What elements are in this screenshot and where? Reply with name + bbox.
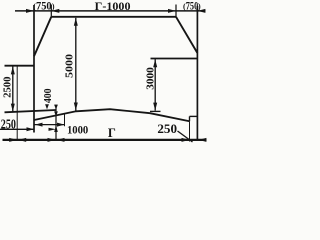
svg-text:): ) (52, 2, 55, 11)
svg-text:Г: Г (108, 126, 116, 140)
arrow up under 1000 line at curb (54, 125, 58, 132)
extension line corner right (175, 5, 177, 17)
right wall (196, 6, 198, 141)
arrow gamma-1000 left (51, 9, 59, 13)
road level tick at 3000 (150, 110, 161, 112)
arrow 1000 right (57, 123, 65, 127)
arrow 250 bottom right-point (27, 127, 35, 131)
extension line corner left (50, 5, 52, 17)
svg-text:): ) (198, 2, 201, 11)
dimension line 400 (55, 105, 57, 141)
left ledge (5, 65, 35, 67)
gauge dimension line bottom (3, 139, 207, 141)
arrow gauge curb right-flank (57, 138, 65, 142)
leader line right 250 (178, 131, 193, 142)
arrow 3000 up (153, 59, 157, 67)
svg-text:250: 250 (157, 121, 177, 136)
arrow left outer 750 (26, 9, 34, 13)
extension line x17 (16, 66, 18, 141)
arrow gauge left inside (18, 138, 26, 142)
svg-text:Г-1000: Г-1000 (95, 0, 131, 13)
road surface (34, 109, 190, 121)
dimension line 250 bottom left (0, 128, 34, 130)
svg-text:250: 250 (1, 117, 16, 132)
svg-text:750: 750 (186, 0, 198, 12)
svg-text:2500: 2500 (1, 76, 13, 98)
right chamfer (176, 17, 197, 53)
dimension line 5000 (75, 18, 77, 111)
arrow 3000 down (153, 103, 157, 111)
arrow gauge left outside (9, 138, 17, 142)
arrow 5000 down (74, 103, 78, 111)
arrow 400 under text (45, 104, 49, 109)
arrow 5000 up (74, 18, 78, 26)
arrow 400 upper down (54, 105, 58, 110)
right ledge (151, 58, 198, 60)
arrow gauge curb left-flank (48, 138, 56, 142)
outline top (51, 16, 176, 18)
svg-text:750: 750 (36, 0, 52, 12)
arrow 400 lower down (54, 111, 58, 116)
dimension line 1000 bottom (34, 124, 64, 126)
arrow 2500 up (11, 66, 15, 74)
top dimension line (15, 10, 206, 12)
arrow 1000 left (35, 123, 43, 127)
arrow on 250 line at curb (49, 128, 57, 131)
left wall (33, 5, 35, 133)
extension line x64.5 (64, 113, 66, 126)
extension step right down (189, 121, 191, 141)
road step right (189, 116, 191, 121)
arrow gauge right outside (198, 138, 206, 142)
svg-text:3000: 3000 (145, 67, 157, 90)
arrow right outer 750 (197, 9, 205, 13)
arrow right 250 left (182, 138, 190, 142)
left sidewalk surface (5, 110, 57, 112)
dimension line 3000 (154, 59, 156, 110)
arrow gamma-1000 right (168, 9, 176, 13)
svg-text:400: 400 (42, 88, 54, 103)
arrow 2500 down (11, 104, 15, 112)
dimension line 2500 (12, 66, 14, 111)
right curb platform (190, 115, 198, 117)
svg-text:1000: 1000 (67, 122, 88, 136)
left chamfer (34, 17, 51, 57)
svg-text:5000: 5000 (63, 53, 75, 78)
